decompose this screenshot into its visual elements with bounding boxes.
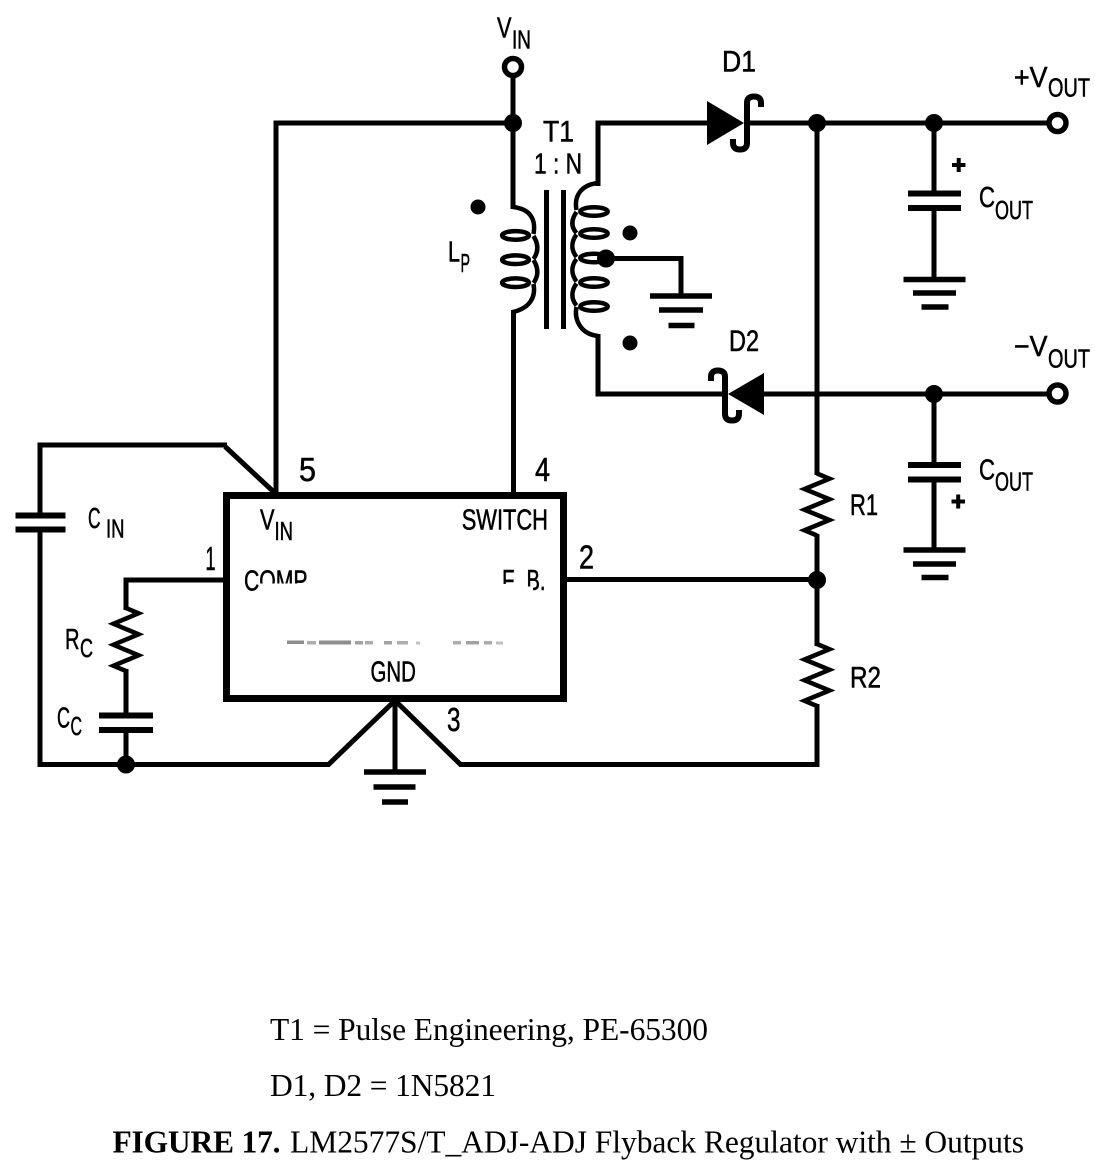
wire junction down to R2 <box>815 578 820 646</box>
wire COUT bottom to ground <box>932 480 937 553</box>
terminal +VOUT <box>1049 115 1066 132</box>
capacitor COUT bottom <box>908 465 961 480</box>
wire secondary bottom to D2 <box>596 334 724 394</box>
capacitor COUT top <box>908 194 961 209</box>
node VIN label <box>497 13 531 55</box>
label +VOUT <box>1014 62 1090 103</box>
resistor R2 <box>805 644 830 706</box>
IC U1 LM2577 box <box>227 496 564 699</box>
label RC <box>65 624 93 663</box>
ground COUT top <box>904 280 966 308</box>
junction COUT bottom <box>925 385 943 403</box>
capacitor CC <box>99 716 153 731</box>
capacitor COUT bottom plus sign <box>952 495 966 509</box>
phase dot secondary top <box>623 226 638 241</box>
junction VIN node <box>504 114 522 132</box>
svg-text:IN: IN <box>275 516 294 546</box>
svg-text:+V: +V <box>1014 62 1048 94</box>
svg-text:GND: GND <box>371 657 416 689</box>
label Lp <box>448 236 470 278</box>
wire junction down to primary <box>511 123 516 209</box>
ground transformer center tap <box>650 296 712 326</box>
diode D1 <box>707 97 761 150</box>
resistor R1 <box>805 474 830 536</box>
wire center tap to ground <box>606 256 681 298</box>
svg-text:IN: IN <box>512 24 531 54</box>
svg-text:P: P <box>461 248 471 278</box>
label -VOUT <box>1014 331 1090 373</box>
svg-text:C: C <box>979 182 995 214</box>
label COUT bottom <box>979 455 1033 497</box>
phase dot secondary bottom <box>623 336 638 351</box>
svg-text:LM2577S/T_ADJ-ADJ Flyback Regu: LM2577S/T_ADJ-ADJ Flyback Regulator with… <box>290 1124 1024 1159</box>
capacitor CIN <box>16 516 66 530</box>
junction R1 top <box>808 114 826 132</box>
svg-text:T1: T1 <box>543 116 574 149</box>
svg-text:2: 2 <box>579 539 594 576</box>
junction COUT top <box>925 114 943 132</box>
wire +VOUT rail down to R1 (crosses D2 wire) <box>815 123 820 475</box>
svg-text:C: C <box>88 503 101 535</box>
svg-text:OUT: OUT <box>1048 343 1090 373</box>
wire GND pin diagonals <box>328 701 461 766</box>
svg-text:1: 1 <box>206 540 216 577</box>
wire COMP pin1 <box>126 578 227 611</box>
svg-text:SWITCH: SWITCH <box>462 504 548 536</box>
transformer core lines <box>547 190 564 329</box>
phase dot primary <box>471 200 486 215</box>
IC erased part number (faint remnants) <box>287 641 503 645</box>
label CIN <box>88 503 125 544</box>
svg-text:OUT: OUT <box>1048 73 1090 103</box>
wire R2 bottom to bottom rail <box>459 704 820 767</box>
svg-text:T1 = Pulse Engineering, PE-653: T1 = Pulse Engineering, PE-65300 <box>270 1012 708 1047</box>
svg-text:D1: D1 <box>722 46 756 79</box>
resistor RC <box>114 608 139 671</box>
svg-text:C: C <box>80 633 93 663</box>
svg-text:D1, D2 = 1N5821: D1, D2 = 1N5821 <box>270 1068 496 1103</box>
IC pin label COMP (bottom clipped) <box>244 566 321 598</box>
IC pin label F.B. (bottom clipped) <box>498 565 546 597</box>
svg-text:−V: −V <box>1014 331 1048 363</box>
svg-text:IN: IN <box>106 514 125 544</box>
wire top rail left <box>276 121 513 126</box>
wire secondary top to D1 rail <box>596 123 708 186</box>
junction CC bottom <box>117 756 135 774</box>
svg-text:R: R <box>65 624 80 656</box>
svg-text:FIGURE 17.: FIGURE 17. <box>113 1124 281 1159</box>
wire left vertical to pin5 <box>274 121 279 496</box>
svg-text:OUT: OUT <box>995 466 1033 496</box>
wire COUT top to ground <box>932 208 937 282</box>
capacitor COUT top plus sign <box>952 158 966 172</box>
svg-text:D2: D2 <box>729 325 759 358</box>
wire CIN left vertical upper <box>38 443 43 514</box>
wire bottom rail left <box>38 762 331 767</box>
label COUT top <box>979 182 1033 225</box>
terminal -VOUT <box>1049 385 1066 402</box>
svg-text:3: 3 <box>447 701 461 738</box>
wire RC to CC <box>124 669 129 716</box>
ground IC GND <box>364 772 426 802</box>
diode D2 <box>711 371 764 421</box>
label CC <box>57 703 82 742</box>
wire junction to COUT bottom <box>932 394 937 465</box>
ground COUT bottom <box>904 550 966 578</box>
svg-text:C: C <box>71 711 83 741</box>
svg-text:L: L <box>448 236 460 268</box>
wire primary bottom to pin4 <box>511 310 516 495</box>
wire GND pin vertical <box>393 699 398 774</box>
wire CIN left vertical lower <box>38 532 43 767</box>
wire D1 to +VOUT terminal <box>750 121 1049 126</box>
svg-text:OUT: OUT <box>995 195 1033 225</box>
transformer T1 secondary winding <box>572 183 607 336</box>
wire junction to COUT top <box>932 123 937 194</box>
junction center tap dot <box>597 250 615 268</box>
svg-text:5: 5 <box>299 451 316 488</box>
wire D2 to -VOUT terminal <box>764 392 1049 397</box>
svg-text:C: C <box>979 455 995 487</box>
svg-text:V: V <box>497 13 512 45</box>
IC pin label VIN <box>260 505 293 547</box>
wire VIN terminal to junction <box>511 76 516 124</box>
svg-text:4: 4 <box>535 451 550 488</box>
wire FB pin2 to junction <box>564 577 817 582</box>
svg-text:1 : N: 1 : N <box>534 149 582 181</box>
wire R1 bottom to FB junction <box>815 534 820 582</box>
junction FB node <box>808 571 826 589</box>
svg-text:R1: R1 <box>850 489 878 522</box>
wire CC to bottom rail <box>124 730 129 765</box>
caption figure title <box>113 1124 1025 1159</box>
svg-text:C: C <box>57 703 70 735</box>
wire CIN branch top <box>40 445 277 495</box>
svg-text:V: V <box>260 505 275 537</box>
svg-text:R2: R2 <box>850 662 881 695</box>
transformer T1 primary winding Lp <box>502 207 537 312</box>
terminal VIN <box>505 59 522 76</box>
